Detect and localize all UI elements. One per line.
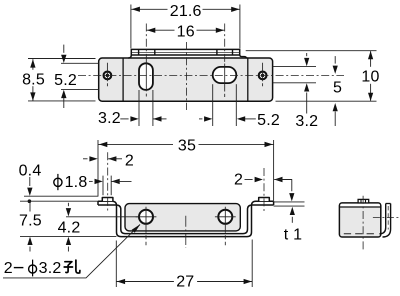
svg-text:7.5: 7.5 bbox=[19, 213, 42, 230]
svg-text:2: 2 bbox=[125, 152, 134, 169]
svg-text:4.2: 4.2 bbox=[58, 220, 81, 237]
svg-text:27: 27 bbox=[176, 274, 194, 291]
svg-text:2: 2 bbox=[234, 171, 243, 188]
svg-text:3.2: 3.2 bbox=[98, 110, 121, 127]
svg-text:8.5: 8.5 bbox=[22, 71, 45, 88]
svg-text:16: 16 bbox=[177, 24, 195, 41]
svg-text:3.2: 3.2 bbox=[295, 113, 318, 130]
svg-text:2: 2 bbox=[4, 260, 13, 277]
svg-text:10: 10 bbox=[361, 68, 379, 85]
svg-text:3.2: 3.2 bbox=[39, 260, 62, 277]
svg-text:21.6: 21.6 bbox=[170, 3, 202, 20]
svg-text:0.4: 0.4 bbox=[19, 162, 42, 179]
svg-text:1.8: 1.8 bbox=[65, 174, 88, 191]
svg-text:5.2: 5.2 bbox=[54, 72, 77, 89]
svg-text:35: 35 bbox=[178, 138, 196, 155]
svg-text:t 1: t 1 bbox=[284, 227, 302, 244]
svg-text:5.2: 5.2 bbox=[257, 112, 280, 129]
svg-text:5: 5 bbox=[333, 80, 342, 97]
